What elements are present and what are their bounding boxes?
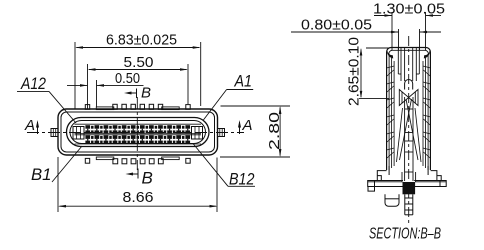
dimension 5.50 — [88, 64, 189, 109]
corner curl right — [424, 51, 430, 59]
svg-text:0.50: 0.50 — [115, 71, 140, 87]
bottom tabs — [85, 158, 190, 163]
side tab right — [218, 129, 225, 137]
top tabs — [85, 104, 190, 109]
section marker A left — [24, 117, 39, 134]
svg-text:B12: B12 — [229, 170, 255, 189]
svg-text:A: A — [24, 117, 35, 134]
solder tail — [405, 194, 413, 215]
shell top bump left — [96, 107, 114, 110]
svg-text:A12: A12 — [20, 74, 46, 93]
svg-text:2.65±0.10: 2.65±0.10 — [347, 37, 363, 106]
tongue verticals — [398, 48, 419, 81]
bottom foot left — [385, 194, 399, 206]
opening stadium inner — [70, 121, 206, 144]
svg-text:A1: A1 — [234, 72, 252, 91]
section outer shell — [387, 48, 431, 171]
svg-text:5.50: 5.50 — [124, 55, 154, 71]
shell bottom bump left — [96, 157, 114, 160]
latch right — [192, 127, 203, 140]
pin row bottom — [85, 135, 191, 144]
label A12 — [17, 74, 76, 123]
section marker B bottom — [126, 169, 153, 188]
svg-text:B1: B1 — [31, 165, 52, 184]
wall segment dividers — [387, 66, 431, 150]
foot step right — [428, 166, 446, 181]
side tab left — [51, 129, 58, 137]
latch left — [73, 127, 84, 140]
foot step left — [377, 166, 389, 181]
dimension 0.50 — [67, 80, 144, 107]
section body centerline — [408, 36, 410, 225]
dimension 8.66 — [58, 157, 217, 212]
centerline A-A — [27, 132, 244, 134]
wall inner lines left — [392, 58, 426, 168]
solder block (solid) — [403, 182, 416, 194]
contact band bottom line — [75, 143, 202, 145]
label A1 — [203, 72, 253, 121]
contact band mid lines — [75, 132, 202, 134]
contact band top line — [75, 123, 202, 125]
wall hatch strokes — [387, 70, 430, 158]
label B1 — [31, 146, 82, 184]
svg-text:B: B — [142, 169, 153, 188]
svg-text:2.80: 2.80 — [267, 112, 283, 150]
section marker A right — [238, 117, 253, 134]
contact tip box — [405, 79, 413, 89]
shell bottom bump right — [162, 157, 180, 160]
dimension 6.83±0.025 — [75, 42, 201, 109]
corner curl left — [387, 51, 393, 59]
contact ladder — [405, 97, 413, 181]
shell inner outline — [61, 112, 215, 152]
spring diagonals — [397, 99, 422, 162]
opening stadium outer — [67, 118, 210, 147]
svg-text:6.83±0.025: 6.83±0.025 — [106, 33, 177, 49]
dimension 2.80 — [220, 106, 290, 157]
svg-text:A: A — [242, 117, 253, 134]
base crossbar — [368, 181, 446, 192]
contact bowtie — [399, 90, 418, 106]
shell top bump right — [162, 107, 180, 110]
svg-text:0.80±0.05: 0.80±0.05 — [301, 18, 372, 34]
pin row top — [85, 125, 191, 134]
label B12 — [193, 144, 255, 189]
section line B-B vertical — [136, 97, 138, 170]
shell outer outline — [58, 109, 218, 155]
svg-text:B: B — [141, 85, 151, 102]
svg-text:8.66: 8.66 — [123, 190, 154, 206]
block holder — [402, 172, 416, 182]
dimension 2.65±0.10 — [359, 48, 389, 98]
section marker B top — [124, 85, 151, 102]
svg-text:SECTION:B–B: SECTION:B–B — [369, 226, 441, 243]
